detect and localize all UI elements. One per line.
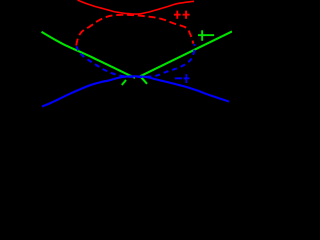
label -+ (blue) minus xyxy=(175,77,182,79)
dashed blue curve (lower branch of dashed bubble) xyxy=(76,44,194,77)
green diabatic line B (lower-left to upper-right) xyxy=(139,32,232,77)
solid blue curve (lower adiabatic branch) xyxy=(42,76,229,106)
label +- (green) xyxy=(198,30,214,41)
green diabatic line A (upper-left to lower-right) xyxy=(42,32,136,78)
green line A continuation stub below crossing xyxy=(141,77,147,84)
label -+ (blue) plus xyxy=(183,74,189,83)
label ++ (red) second plus xyxy=(183,11,190,19)
solid red curve (upper adiabatic branch) xyxy=(78,0,195,14)
label ++ (red) first plus xyxy=(174,11,181,19)
dashed red curve (upper branch of dashed bubble) xyxy=(76,15,193,46)
green line B continuation stub below crossing xyxy=(122,80,126,85)
